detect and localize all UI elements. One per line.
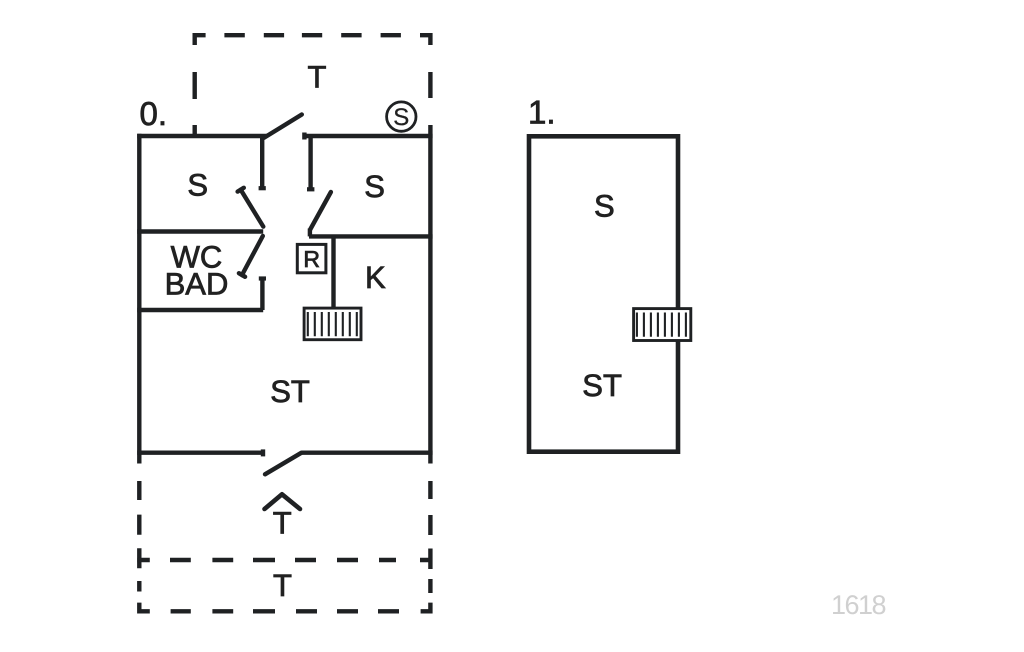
left dashed edge	[137, 481, 141, 592]
terrace divider dashed line	[137, 558, 429, 562]
hall wall right (S2 room left wall)	[308, 136, 312, 188]
stair hatched box plan 1	[634, 309, 691, 341]
bottom-left dashed corner	[139, 603, 150, 612]
bottom door leaf	[265, 453, 302, 475]
S2 room door leaf	[310, 192, 331, 230]
top dashed edge	[224, 33, 401, 37]
bottom wall left segment	[137, 451, 263, 455]
svg-text:0.: 0.	[140, 95, 168, 132]
svg-text:ST: ST	[582, 368, 622, 403]
top wall left segment	[137, 134, 267, 138]
S room door leaf	[238, 188, 264, 227]
leaf end tick	[239, 273, 245, 277]
wall end crossbar	[307, 187, 314, 191]
bottom terrace dashed outline	[137, 481, 430, 611]
WC door leaf	[239, 236, 263, 277]
wall end crossbar	[259, 186, 266, 190]
WC bottom wall	[137, 308, 263, 312]
svg-text:T: T	[273, 568, 292, 603]
bottom-right dashed corner	[421, 603, 431, 612]
left outer wall	[137, 134, 141, 464]
right dashed edge	[428, 481, 432, 593]
WC right wall stub	[260, 279, 264, 311]
svg-text:BAD: BAD	[165, 266, 229, 301]
top-left dashed corner	[195, 35, 206, 45]
S2 door hinge post	[308, 229, 312, 237]
top terrace dashed outline (plan 0)	[195, 35, 431, 136]
hall wall left (S room right wall)	[260, 136, 264, 188]
bottom wall right segment	[302, 451, 433, 455]
outer walls plan 1	[529, 136, 678, 451]
svg-text:S: S	[594, 189, 615, 224]
svg-text:1.: 1.	[528, 94, 556, 131]
leaf end tick	[238, 188, 244, 192]
svg-text:T: T	[273, 505, 292, 540]
right dashed edge of top terrace	[428, 72, 432, 98]
svg-text:S: S	[393, 104, 409, 131]
svg-text:T: T	[308, 60, 327, 95]
S2 room bottom wall	[309, 234, 433, 238]
kitchen counter hatched box	[304, 308, 361, 340]
bottom wall left end tick	[261, 449, 265, 456]
top wall right segment	[303, 134, 433, 138]
top-right dashed corner	[420, 35, 430, 45]
svg-text:S: S	[187, 168, 208, 203]
entrance arrow chevron	[265, 494, 301, 509]
left dashed edge of top terrace	[192, 72, 196, 136]
right outer wall	[428, 125, 432, 464]
wall end crossbar	[259, 276, 266, 280]
svg-text:S: S	[364, 169, 385, 204]
svg-text:R: R	[303, 246, 320, 272]
svg-text:1618: 1618	[831, 590, 886, 620]
circled S sauna symbol	[387, 102, 416, 131]
label R box (radio)	[297, 244, 326, 272]
svg-text:ST: ST	[270, 374, 310, 409]
bottom dashed edge	[171, 609, 399, 613]
kitchen wall stub	[331, 236, 335, 308]
outer walls plan 0	[137, 125, 432, 464]
wall end tick top	[302, 133, 306, 140]
svg-text:K: K	[365, 260, 386, 295]
entrance door leaf (top)	[264, 115, 302, 138]
WC top wall	[137, 229, 263, 233]
